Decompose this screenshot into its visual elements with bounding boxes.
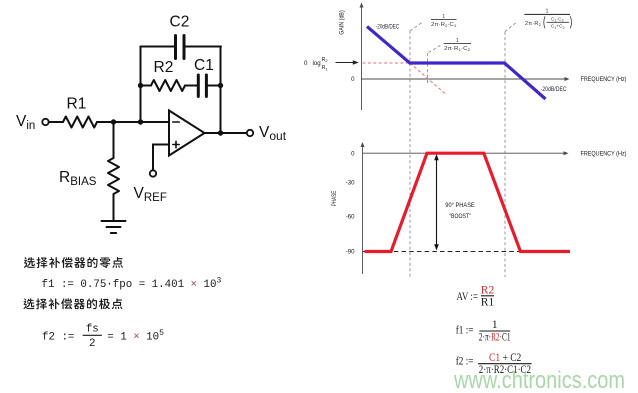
svg-text:-60: -60 (346, 214, 355, 221)
wire node A to node B (114, 121, 141, 123)
svg-text:f1 := 0.75·fpo = 1.401 × 103: f1 := 0.75·fpo = 1.401 × 103 (42, 277, 222, 292)
svg-text:R1: R1 (322, 65, 329, 71)
phase chart axis arrowheads (361, 142, 365, 147)
svg-text:1: 1 (456, 38, 459, 44)
wire C1 to node D (207, 85, 221, 87)
wire R2 to C1 (185, 85, 198, 87)
phase chart x-axis (363, 152, 566, 154)
phase boost arrow double-headed (436, 158, 438, 247)
gain chart y-axis (361, 6, 363, 110)
svg-text:1: 1 (546, 9, 549, 15)
equation AV = R2/R1 (457, 284, 495, 308)
gain asymptote dashed red diagonal (410, 63, 445, 94)
wire node A down to RBIAS (113, 122, 115, 158)
wire R1 to node A (97, 121, 114, 123)
dashed leader to formula mid (429, 45, 442, 53)
wire op-amp noninverting input to VREF (153, 145, 169, 171)
svg-text:C1 + C2: C1 + C2 (489, 352, 522, 364)
formula 1/(2piR1C2) (444, 38, 471, 52)
capacitor C2 (174, 36, 177, 59)
equation f1 := 0.75 fpo = 1.401e3 (42, 277, 222, 292)
wire RBIAS to ground (113, 194, 115, 221)
gain chart dashed vertical at f2 (504, 32, 506, 277)
svg-text:PHASE: PHASE (331, 191, 338, 207)
svg-text:-20dB/DEC: -20dB/DEC (541, 86, 567, 93)
wire node C to R2 (141, 85, 152, 87)
svg-text:R1: R1 (481, 296, 495, 308)
resistor RBIAS (108, 158, 119, 194)
node E junction (output node) (218, 130, 223, 135)
ground (102, 220, 126, 222)
svg-text:fs: fs (86, 324, 99, 336)
svg-text:2π·R2: 2π·R2 (525, 21, 542, 27)
wire right feedback riser down to output node (220, 47, 222, 134)
formula 1/(2piR2C1) (431, 14, 457, 28)
gain chart x-axis (362, 78, 567, 80)
svg-text:R1: R1 (67, 96, 87, 113)
wire top branch left to C2 (141, 46, 176, 48)
resistor R1 (63, 117, 97, 128)
svg-text:2·π·R2·C1: 2·π·R2·C1 (479, 331, 511, 343)
svg-text:FREQUENCY (Hz): FREQUENCY (Hz) (581, 151, 627, 158)
phase -90 dashed line (363, 251, 570, 253)
wire left feedback riser (node B up to feedback branches) (140, 47, 142, 123)
terminal VREF (150, 170, 156, 176)
node B junction (inverting input net) (138, 119, 143, 124)
svg-text:R2: R2 (481, 284, 495, 296)
wire C2 to right riser (185, 46, 222, 48)
terminal Vout (247, 130, 253, 136)
node C junction (mid branch left) (138, 83, 143, 88)
svg-text:C1: C1 (194, 57, 214, 74)
svg-text:R2: R2 (322, 57, 329, 63)
svg-text:f1 :=: f1 := (456, 325, 474, 337)
svg-text:-90: -90 (346, 249, 355, 256)
svg-text:R2: R2 (154, 59, 174, 76)
svg-text:-30: -30 (346, 179, 355, 186)
svg-text:= 1 × 105: = 1 × 105 (107, 329, 164, 344)
label 20log(R2/R1) with arrow (304, 57, 328, 72)
svg-text:1: 1 (442, 14, 445, 20)
dashed leader to formula f2 (505, 23, 516, 32)
phase chart y-axis (362, 146, 364, 274)
svg-text:-20dB/DEC: -20dB/DEC (376, 24, 400, 31)
capacitor C1 (197, 75, 200, 97)
svg-text:AV :=: AV := (457, 291, 479, 303)
phase curve (red) (365, 153, 571, 251)
wire Vin to R1 (49, 121, 63, 123)
svg-text:GAIN (dB): GAIN (dB) (339, 10, 346, 35)
note: choose compensator pole (Chinese) (23, 298, 122, 309)
svg-text:f2 :=: f2 := (456, 356, 474, 368)
node D junction (mid branch right) (218, 83, 223, 88)
wire op-amp output (205, 132, 247, 134)
equation f2 := fs/2 = 1e5 (42, 324, 164, 351)
gain asymptote dashed red horizontal (363, 62, 411, 64)
dashed leader to formula f1 (410, 23, 422, 31)
svg-text:“BOOST”: “BOOST” (449, 213, 471, 220)
resistor R2 (151, 80, 185, 91)
svg-text:f2 :=: f2 := (42, 332, 74, 344)
svg-text:C1+C2: C1+C2 (551, 24, 565, 30)
svg-text:C2: C2 (170, 14, 190, 31)
svg-text:2π·R1·C2: 2π·R1·C2 (444, 46, 471, 52)
equation f1 = 1/(2 pi R2 C1) (456, 319, 511, 343)
svg-text:2π·R2·C1: 2π·R2·C1 (431, 22, 457, 28)
gain curve (blue) (367, 27, 546, 100)
wire node B to op-amp inverting input (141, 121, 170, 123)
svg-text:2: 2 (89, 338, 95, 350)
svg-text:90° PHASE: 90° PHASE (445, 202, 475, 209)
node A junction (111, 119, 116, 124)
svg-text:FREQUENCY (Hz): FREQUENCY (Hz) (581, 76, 627, 83)
svg-text:www.chtronics.com: www.chtronics.com (453, 367, 625, 393)
gain chart axis arrowheads (360, 3, 364, 8)
equation f2 = (C1+C2)/(2 pi R2 C1 C2) (456, 352, 532, 376)
op-amp U1 (169, 111, 205, 156)
gain chart dashed vertical short (1/2piR1C2) (427, 53, 429, 85)
formula 1/(2piR2(C1C2/(C1+C2))) (524, 9, 571, 30)
terminal Vin (42, 119, 48, 125)
svg-text:1: 1 (492, 319, 498, 331)
note: choose compensator zero (Chinese) (24, 257, 123, 268)
svg-text:log: log (313, 60, 321, 67)
gain chart dashed vertical at f1 (409, 31, 411, 277)
